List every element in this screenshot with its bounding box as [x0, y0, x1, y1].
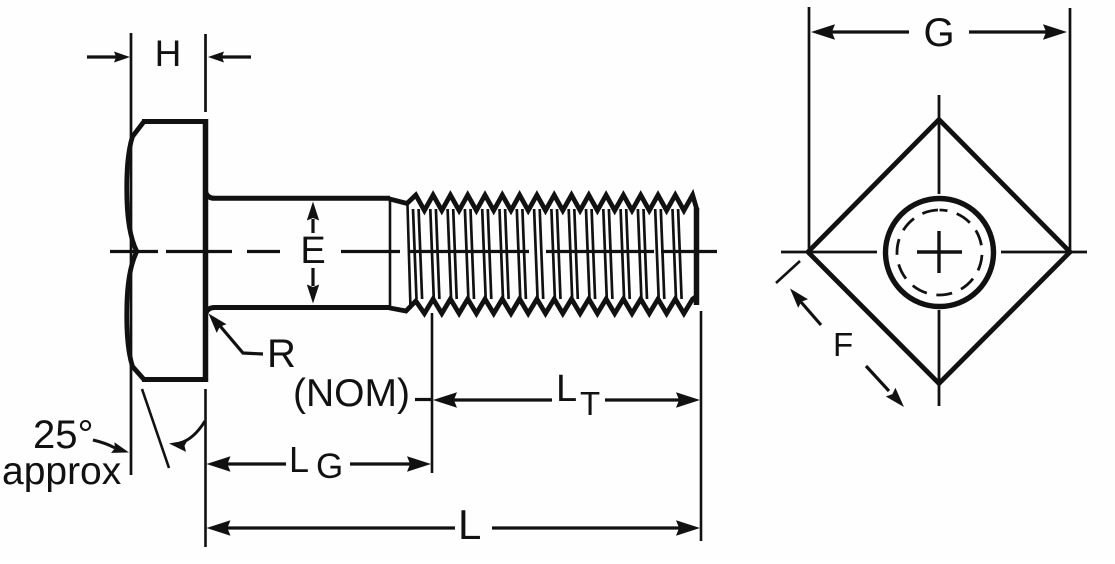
bolt end face [694, 208, 700, 305]
svg-text:E: E [300, 230, 325, 272]
L dimension line left arrow [207, 520, 231, 536]
thread crest zigzag top [389, 195, 697, 211]
NOM tie line [415, 398, 431, 401]
svg-text:G: G [923, 11, 954, 55]
chamfer angle arc arrow [180, 421, 205, 443]
E dimension arrow down [311, 268, 314, 286]
svg-text:L: L [556, 368, 577, 410]
bolt head side outline top and bottom [142, 122, 205, 380]
svg-text:F: F [833, 326, 853, 363]
horizontal centerline [781, 251, 1087, 254]
thread crest zigzag bottom [389, 296, 697, 314]
head square outline (end view across corners) [808, 120, 1070, 384]
thread end extension line [700, 311, 703, 541]
svg-text:approx: approx [2, 450, 122, 493]
shank circle solid [886, 199, 994, 307]
head crown arcs (25 deg chamfer silhouette) [127, 122, 144, 380]
F arrow upper [801, 302, 821, 325]
H extension line right [204, 34, 207, 112]
head bearing face edge [203, 119, 209, 382]
shank (unthreaded body) with fillets [206, 191, 391, 315]
LT dimension line right arrow [605, 398, 681, 401]
F extension tick [776, 261, 800, 283]
LT dimension line left arrow [433, 392, 457, 408]
centerline bolt axis [110, 250, 717, 253]
G extension line right [1069, 8, 1072, 250]
F arrow lower [866, 366, 889, 391]
25 deg tangent line [142, 389, 169, 468]
svg-text:R: R [267, 332, 296, 376]
H dimension arrow right [222, 55, 251, 58]
G extension line left [808, 7, 811, 250]
G dimension line right arrow [969, 30, 1048, 33]
svg-text:L: L [458, 501, 481, 548]
thread runout boundary line [389, 199, 392, 307]
grip gauge extension line [431, 313, 434, 473]
svg-text:(NOM): (NOM) [293, 372, 410, 415]
25 deg leader arrow [93, 440, 115, 448]
H dimension arrow left [87, 55, 116, 58]
LG dimension line right arrow [350, 462, 414, 465]
svg-text:H: H [155, 33, 182, 74]
svg-text:T: T [580, 385, 600, 422]
R leader arrow [215, 320, 263, 354]
LG dimension line left arrow [207, 456, 231, 472]
H extension line left [130, 33, 133, 475]
center cross [917, 250, 962, 253]
G dimension line left arrow [811, 24, 835, 40]
thread flank lines [408, 205, 682, 309]
thread circle dashed [897, 210, 982, 295]
L dimension line right arrow [492, 526, 681, 529]
E dimension arrow up [311, 219, 314, 233]
svg-text:G: G [316, 447, 343, 486]
head face extension line lower [204, 389, 207, 547]
svg-text:L: L [289, 439, 309, 480]
vertical centerline [938, 95, 941, 406]
